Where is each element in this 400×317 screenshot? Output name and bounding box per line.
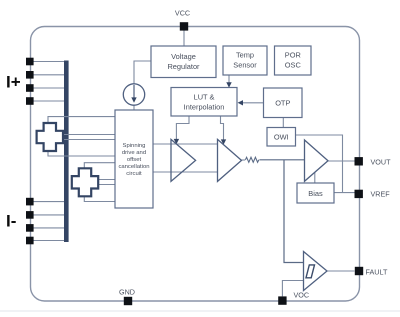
pin I+ 3 <box>26 84 34 92</box>
block Temp Sensor <box>223 46 267 75</box>
svg-text:LUT &: LUT & <box>194 92 215 101</box>
output amplifier A3 <box>305 140 329 181</box>
wire hall1 top terminal to spinning circuit <box>48 117 115 124</box>
arrowhead OTP to LUT <box>238 100 243 105</box>
wire output amplifier A3 to bias <box>314 173 316 184</box>
wire I+ pin3 to bar <box>31 87 65 89</box>
wire LUT to amplifier A2 (arrow) <box>221 116 224 140</box>
wire OTP to OWI <box>282 118 284 128</box>
block OWI <box>267 128 296 147</box>
wire hall1 right terminal a to spinning circuit <box>62 134 115 136</box>
wire current source to spinning circuit <box>133 105 135 110</box>
wire I+ pin2 to bar <box>31 74 65 76</box>
hysteresis symbol inside comparator <box>306 265 315 278</box>
primary conductor bar <box>64 61 69 243</box>
svg-text:cancellation: cancellation <box>118 164 149 170</box>
wire bias to VREF pin <box>334 192 355 194</box>
svg-text:FAULT: FAULT <box>366 267 388 276</box>
svg-text:VOUT: VOUT <box>371 157 392 166</box>
wire VOC pin to fault comparator <box>282 281 303 297</box>
svg-text:VCC: VCC <box>175 9 190 18</box>
amplifier A1 <box>171 139 196 181</box>
arrowhead LUT to amplifier A1 <box>174 139 179 144</box>
svg-text:OWI: OWI <box>274 132 289 141</box>
wire OWI to VREF net <box>296 135 343 193</box>
wire output amplifier A3 to VOUT pin <box>328 160 355 162</box>
svg-text:Temp: Temp <box>236 51 254 60</box>
block Spinning drive and offset cancellation circuit <box>115 110 153 208</box>
wire hall1 bottom terminal to spinning circuit <box>48 151 115 157</box>
fault comparator U1 <box>304 252 328 291</box>
arrowhead LUT to amplifier A2 <box>221 139 226 144</box>
block Bias <box>297 183 334 203</box>
wire hall2 top terminal to spinning circuit <box>84 163 115 169</box>
block OTP <box>264 88 303 118</box>
IC package outline <box>31 27 360 302</box>
svg-text:I+: I+ <box>6 73 21 92</box>
current source CS1 <box>123 84 144 105</box>
wire VCC pin to voltage regulator <box>183 31 185 47</box>
svg-text:Sensor: Sensor <box>233 61 257 70</box>
svg-text:OTP: OTP <box>275 98 290 107</box>
pin I+ 4 <box>26 97 34 105</box>
svg-text:GND: GND <box>119 288 135 297</box>
hall plate H2 <box>72 168 98 196</box>
block POR OSC <box>275 46 312 75</box>
block LUT & Interpolation <box>171 88 237 117</box>
arrowhead temp sensor to LUT <box>226 82 231 87</box>
pin I+ 1 <box>26 58 34 66</box>
svg-text:Regulator: Regulator <box>167 62 200 71</box>
wire voltage regulator to current source <box>134 61 151 84</box>
wire hall2 right terminal b to spinning circuit <box>98 184 116 186</box>
wire fault comparator output to FAULT pin <box>327 270 355 272</box>
svg-text:Bias: Bias <box>308 189 323 198</box>
pin FAULT <box>355 267 363 275</box>
svg-text:circuit: circuit <box>126 171 142 177</box>
decorative baseline (kept unlabeled-ish) <box>0 310 400 312</box>
amplifier A2 <box>218 139 242 181</box>
pin VOC <box>278 296 286 304</box>
pin GND <box>124 297 132 305</box>
wire I- pin1 to bar <box>31 201 65 203</box>
wire temp sensor to LUT (arrow) <box>228 75 230 84</box>
wire OTP to LUT (arrow) <box>242 102 264 104</box>
svg-text:Interpolation: Interpolation <box>184 102 225 111</box>
svg-text:I-: I- <box>6 212 16 231</box>
pin VCC <box>180 22 188 30</box>
wire I+ pin4 to bar <box>31 100 65 102</box>
wire amplifier A2 output to resistor <box>242 159 246 161</box>
wire LUT to amplifier A1 (arrow) <box>176 116 189 140</box>
wire spinning circuit output b to amplifier A2 <box>153 171 218 173</box>
resistor R1 <box>245 157 258 162</box>
wire resistor to output amplifier A3 <box>259 159 304 161</box>
svg-text:POR: POR <box>285 51 301 60</box>
wire signal branch to fault comparator <box>284 160 304 263</box>
block Voltage Regulator <box>151 46 216 78</box>
wire spinning circuit output a to amplifier A2 <box>153 143 218 145</box>
pin VREF <box>355 190 363 198</box>
pin I- 3 <box>26 224 34 232</box>
wire I- pin3 to bar <box>31 227 65 229</box>
pin I- 4 <box>26 237 34 245</box>
svg-text:VREF: VREF <box>371 190 391 199</box>
wire I- pin4 to bar <box>31 240 65 242</box>
wire hall2 right terminal a to spinning circuit <box>98 179 116 181</box>
pin VOUT <box>355 157 363 165</box>
svg-text:offset: offset <box>127 157 142 163</box>
pin I+ 2 <box>26 71 34 79</box>
wire I+ pin1 to bar <box>31 61 65 63</box>
pin I- 2 <box>26 211 34 219</box>
svg-text:OSC: OSC <box>285 61 302 70</box>
hall plate H1 <box>37 123 63 151</box>
wire hall2 bottom terminal to spinning circuit <box>84 196 115 202</box>
svg-text:Voltage: Voltage <box>171 52 196 61</box>
svg-text:Spinning: Spinning <box>123 143 146 149</box>
svg-text:VOC: VOC <box>294 291 310 300</box>
wire hall1 right terminal b to spinning circuit <box>62 139 115 141</box>
wire I- pin2 to bar <box>31 214 65 216</box>
pin I- 1 <box>26 198 34 206</box>
svg-text:drive and: drive and <box>122 150 146 156</box>
